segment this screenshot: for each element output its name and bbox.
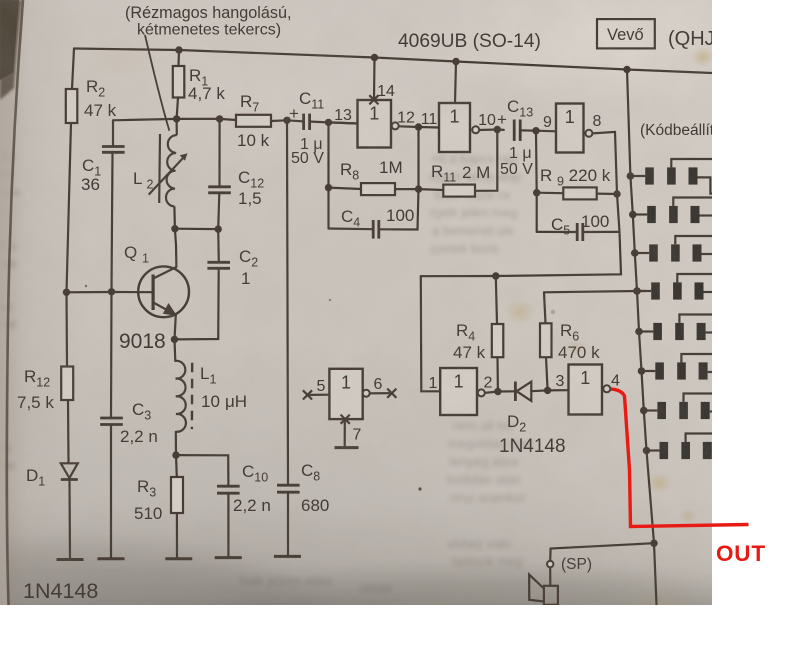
no-connect mark pin 6 [387,389,396,398]
wire supply rail top [74,49,712,74]
ground under C3 [98,557,125,560]
transistor Q1 [138,266,189,317]
wire base net [67,291,154,293]
capacitor C4 [372,220,375,239]
node supply pin14 [371,54,378,61]
node R9 left [533,189,540,196]
wire R4 branch [496,276,497,324]
wire speaker net [550,543,654,561]
node R9 right [613,190,620,197]
output bubble pin 2 [478,389,485,396]
wire node row y229 [175,228,218,231]
inverter gate U1C pins 9-8 [556,104,584,153]
wire L1 bottom node [175,432,177,455]
node tank C8 [283,117,290,124]
wire right bus [627,70,657,606]
no-connect mark pin 7 [341,415,350,424]
capacitor C2 [207,261,230,264]
wire left rail (supply to ground) [72,49,74,90]
wire C1 branch [112,120,114,145]
node R8 left [325,184,332,191]
inverter gate U1B pins 11-10 [439,103,470,152]
resistor R12 [61,367,73,401]
specks [418,487,421,490]
wire R6 branch [544,291,645,292]
resistor R9 [563,187,596,199]
diode D2 [515,382,531,402]
wire collector [175,229,177,267]
resistor R4 [492,324,504,357]
wire pin13 [329,122,358,123]
node C13-pin9 [532,127,539,134]
red OUT wire [611,389,749,527]
node pin10 [494,126,501,133]
ground under R3 [165,557,192,560]
wire R8 row [327,122,329,228]
resistor R8 [361,183,395,195]
node pin12-11 [415,123,422,130]
inductor L2 [159,119,177,229]
wire gate2 supply pin [455,62,456,104]
ground under C8 [274,555,301,558]
page edge shading [0,0,23,605]
resistor R11 [443,185,475,197]
ground under C10 [215,556,242,559]
DIP switch S1 [627,159,712,194]
wire C13 to pin9 [522,129,557,132]
output bubble pin 6 [363,390,370,397]
capacitor C10 [217,485,240,488]
wire pin2 D2 pin3 [485,391,516,393]
inverter gate U1F pins 5-6-7 [329,369,362,419]
inductor L1 [175,361,186,432]
DIP switch S8 [643,434,712,460]
capacitor C13 [513,120,516,141]
wire C5 row [537,231,576,233]
capacitor C12 [208,185,231,188]
wire C2 branch [217,229,220,262]
resistor R1 [173,66,185,98]
wire gate6 pin5 [311,394,330,396]
DIP switch S5 [635,315,712,341]
wire C10 ground [227,494,229,558]
wire pin8 feedback [421,132,621,391]
capacitor C8 [277,484,300,487]
inverter gate U1D pins 1-2 [440,368,477,415]
node pin2 R4 [494,388,501,395]
capacitor C3 [100,417,123,420]
wire R3 branch [175,455,178,477]
speaker bubble [547,561,553,567]
DIP switch S6 [638,354,712,380]
node bus R6 [633,287,640,294]
node L1 bottom [172,451,179,458]
wire C12 branch [218,119,220,186]
node C11 out [325,119,332,126]
annotation Vevo box [597,19,655,48]
wire emitter down [175,315,176,361]
resistor R6 [540,323,552,357]
inductor L1 core (dashed) [191,363,194,429]
annotation leader line [145,35,169,131]
node supply bus [623,66,630,73]
wire R11 row [419,188,444,191]
wire R1 branch [177,50,180,66]
inverter gate U1E pins 3-4 [569,365,603,415]
wire pin12 to pin11 [399,126,439,127]
wire gate6 pin7 [344,419,346,447]
node tank C12 [216,115,223,122]
no-connect mark pin 5 [303,390,312,399]
wire R9 row [535,131,538,232]
wire C4 row [329,227,373,230]
capacitor C1 [102,145,125,148]
node tank L2 [173,115,180,122]
ground under D1 [57,558,84,561]
node base left [63,289,70,296]
node bus speaker [650,540,657,547]
output bubble pin 8 [585,130,592,137]
node collector C12 [215,225,222,232]
inverter gate U1A pins 13-12-14 [358,100,392,148]
node R8 right [415,185,422,192]
wire pin10 to C13 [479,128,504,131]
DIP switch S2 [629,198,712,224]
node emitter [171,336,178,343]
wire gate6 pin6 [370,392,392,394]
output bubble pin 12 [392,122,399,129]
capacitor C11 [302,114,305,130]
DIP switch S3 [631,236,712,262]
wire tank net y120 [113,119,236,120]
node R4 top [492,272,499,279]
ground pin 7 [335,446,359,449]
resistor R3 [171,477,183,513]
node supply R1 [175,46,182,53]
capacitor C5 [576,223,579,241]
output bubble pin 4 [603,385,610,392]
resistor R2 [66,89,78,123]
wire C8 long branch [287,120,288,485]
svg-text:OUT: OUT [716,541,766,566]
node supply gate2 [452,58,459,65]
node D2 R6 [544,387,551,394]
speaker SP [529,575,558,605]
no-connect mark pin 14 [369,95,378,104]
DIP switch S7 [640,394,712,420]
diode D1 [61,463,78,479]
DIP switch S4 [633,274,712,300]
inductor L2 tuning arrow [149,153,188,194]
output bubble pin 10 [472,126,479,133]
resistor R7 [236,115,271,127]
node collector L2 [171,225,178,232]
wire pin14 [373,58,376,100]
node base C1 [108,288,115,295]
